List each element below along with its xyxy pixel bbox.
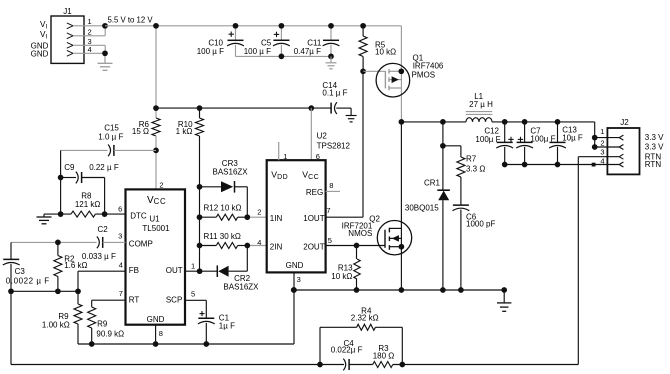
svg-text:C15: C15: [104, 124, 119, 133]
svg-text:1.6 kΩ: 1.6 kΩ: [64, 261, 87, 270]
svg-text:RT: RT: [129, 296, 140, 305]
svg-text:1: 1: [600, 127, 604, 136]
svg-text:1µ F: 1µ F: [219, 322, 235, 331]
svg-text:OUT: OUT: [166, 266, 183, 275]
svg-text:3.3 V: 3.3 V: [645, 143, 664, 152]
svg-text:10 kΩ: 10 kΩ: [375, 47, 396, 56]
svg-text:27 µ H: 27 µ H: [469, 100, 493, 109]
svg-text:CR1: CR1: [424, 179, 441, 188]
svg-text:15 Ω: 15 Ω: [132, 127, 149, 136]
svg-text:30BQ015: 30BQ015: [405, 204, 439, 213]
svg-text:121 kΩ: 121 kΩ: [75, 200, 101, 209]
svg-text:FB: FB: [129, 266, 139, 275]
svg-text:1OUT: 1OUT: [303, 214, 324, 223]
svg-text:4: 4: [600, 157, 604, 166]
svg-text:R12 10 kΩ: R12 10 kΩ: [204, 204, 242, 213]
svg-text:2.32 kΩ: 2.32 kΩ: [351, 314, 379, 323]
svg-text:IRF7406: IRF7406: [413, 62, 444, 71]
svg-text:8: 8: [159, 329, 163, 338]
svg-text:3: 3: [297, 275, 301, 284]
svg-text:1: 1: [88, 17, 92, 26]
svg-text:90.9 kΩ: 90.9 kΩ: [96, 329, 124, 338]
svg-text:5: 5: [328, 236, 332, 245]
svg-text:8: 8: [329, 181, 333, 190]
svg-text:GND: GND: [31, 50, 49, 59]
svg-text:5.5 V to 12 V: 5.5 V to 12 V: [108, 15, 154, 24]
svg-text:1: 1: [191, 262, 195, 271]
svg-text:7: 7: [119, 289, 123, 298]
svg-text:1IN: 1IN: [270, 214, 283, 223]
svg-text:4: 4: [88, 45, 92, 54]
svg-text:C11: C11: [307, 38, 322, 47]
svg-text:R13: R13: [338, 263, 353, 272]
svg-text:0.47µ F: 0.47µ F: [294, 47, 321, 56]
svg-text:PMOS: PMOS: [412, 70, 436, 79]
svg-text:1.00 kΩ: 1.00 kΩ: [42, 321, 70, 330]
svg-text:1.0 µ F: 1.0 µ F: [98, 133, 123, 142]
svg-text:2: 2: [257, 208, 261, 217]
svg-text:0.22 µ F: 0.22 µ F: [89, 163, 119, 172]
svg-text:100µ F: 100µ F: [475, 135, 500, 144]
svg-text:U1: U1: [149, 215, 160, 224]
svg-text:2IN: 2IN: [270, 242, 283, 251]
svg-text:10µ F: 10µ F: [562, 133, 583, 142]
svg-text:SCP: SCP: [166, 296, 182, 305]
svg-text:C2: C2: [98, 225, 109, 234]
svg-text:R11 30 kΩ: R11 30 kΩ: [204, 232, 241, 241]
svg-text:C5: C5: [261, 38, 272, 47]
svg-text:DTC: DTC: [130, 211, 147, 220]
svg-text:J2: J2: [620, 118, 629, 127]
svg-text:3.3 Ω: 3.3 Ω: [466, 165, 485, 174]
svg-text:4: 4: [119, 261, 123, 270]
svg-text:100 µ F: 100 µ F: [197, 47, 224, 56]
svg-text:TPS2812: TPS2812: [317, 141, 351, 150]
svg-text:R9: R9: [58, 312, 69, 321]
svg-text:3: 3: [118, 232, 122, 241]
svg-text:100 µ F: 100 µ F: [244, 47, 271, 56]
svg-text:GND: GND: [147, 315, 165, 324]
svg-text:3.3 V: 3.3 V: [645, 133, 664, 142]
svg-text:6: 6: [316, 152, 320, 161]
svg-text:2OUT: 2OUT: [303, 242, 324, 251]
svg-text:6: 6: [118, 205, 122, 214]
svg-text:COMP: COMP: [129, 240, 153, 249]
svg-text:0.1 µ F: 0.1 µ F: [322, 88, 347, 97]
svg-text:1: 1: [283, 152, 287, 161]
svg-text:10 kΩ: 10 kΩ: [331, 272, 352, 281]
svg-text:1 kΩ: 1 kΩ: [176, 127, 193, 136]
svg-text:2: 2: [159, 180, 163, 189]
svg-text:2: 2: [88, 27, 92, 36]
svg-text:5: 5: [191, 290, 195, 299]
svg-text:J1: J1: [63, 7, 72, 16]
svg-text:BAS16ZX: BAS16ZX: [223, 282, 259, 291]
svg-text:REG: REG: [306, 188, 323, 197]
svg-text:0.022µ F: 0.022µ F: [331, 346, 363, 355]
svg-text:C9: C9: [64, 163, 75, 172]
svg-text:C3: C3: [15, 267, 26, 276]
svg-text:2: 2: [600, 138, 604, 147]
svg-text:0.033 µ F: 0.033 µ F: [82, 252, 116, 261]
svg-text:0.0022 µ F: 0.0022 µ F: [6, 277, 50, 286]
svg-text:1000 pF: 1000 pF: [466, 220, 495, 229]
svg-text:GND: GND: [286, 261, 304, 270]
svg-text:TL5001: TL5001: [142, 224, 170, 233]
svg-text:7: 7: [326, 206, 330, 215]
svg-text:VCC: VCC: [147, 195, 166, 206]
svg-text:R9: R9: [97, 319, 108, 328]
svg-text:RTN: RTN: [645, 160, 662, 169]
svg-text:R7: R7: [466, 154, 477, 163]
svg-text:100µ F: 100µ F: [530, 134, 555, 143]
svg-text:3: 3: [600, 148, 604, 157]
svg-text:NMOS: NMOS: [348, 229, 372, 238]
svg-text:BAS16ZX: BAS16ZX: [213, 168, 249, 177]
svg-text:180 Ω: 180 Ω: [373, 351, 395, 360]
svg-text:U2: U2: [317, 132, 328, 141]
svg-text:4: 4: [257, 238, 261, 247]
svg-text:C10: C10: [208, 38, 223, 47]
